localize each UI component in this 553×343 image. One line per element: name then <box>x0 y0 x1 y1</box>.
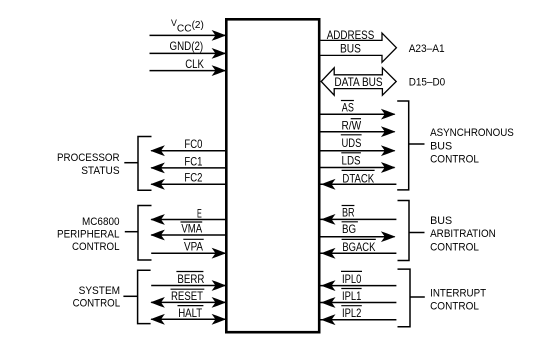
svg-text:FC1: FC1 <box>184 154 202 168</box>
wire DTACK <box>320 183 396 185</box>
arrow into block GND <box>212 49 225 59</box>
svg-text:FC2: FC2 <box>184 171 202 185</box>
svg-text:RESET: RESET <box>171 289 203 303</box>
svg-text:MC6800: MC6800 <box>82 216 120 228</box>
bracket interrupt control <box>398 269 411 327</box>
svg-text:PERIPHERAL: PERIPHERAL <box>57 229 120 241</box>
arrow out AS <box>382 109 395 119</box>
arrow out R/W <box>382 127 395 137</box>
arrow into block VCC <box>212 31 225 41</box>
wire IPL2 <box>320 319 396 321</box>
arrow out BG <box>382 232 395 242</box>
wire R/W <box>320 131 394 133</box>
svg-text:IPL1: IPL1 <box>342 289 361 303</box>
address bus arrow <box>320 33 396 62</box>
wire VMA <box>151 234 225 236</box>
wire BGACK <box>320 252 396 254</box>
bracket asynchronous bus control <box>397 101 409 190</box>
arrow out FC2 <box>151 180 164 190</box>
svg-text:IPL2: IPL2 <box>342 306 361 320</box>
svg-text:R/W: R/W <box>342 118 362 132</box>
wire HALT <box>151 318 225 320</box>
svg-text:D15–D0: D15–D0 <box>409 77 446 89</box>
bracket processor status <box>138 137 152 191</box>
svg-text:BGACK: BGACK <box>342 240 375 254</box>
svg-text:DTACK: DTACK <box>342 171 374 185</box>
arrow in BGACK <box>322 249 335 259</box>
svg-text:CONTROL: CONTROL <box>73 297 121 309</box>
wire BR <box>320 218 396 220</box>
processor block U1 MC68000 <box>226 19 319 332</box>
bracket bus arbitration control <box>398 201 410 261</box>
arrow out VMA <box>151 230 164 240</box>
svg-text:GND(2): GND(2) <box>170 39 204 53</box>
arrow in IPL0 <box>322 281 335 291</box>
svg-text:BG: BG <box>342 222 356 236</box>
arrow out RESET <box>151 298 164 308</box>
arrow in IPL2 <box>322 315 335 325</box>
wire E <box>151 219 225 221</box>
arrow in RESET <box>212 298 225 308</box>
svg-text:STATUS: STATUS <box>81 165 119 177</box>
svg-text:UDS: UDS <box>342 136 362 150</box>
svg-text:AS: AS <box>342 101 354 115</box>
svg-text:BUS: BUS <box>430 141 452 153</box>
data bus arrow <box>321 68 396 95</box>
arrow out LDS <box>382 163 395 173</box>
svg-text:CONTROL: CONTROL <box>430 241 479 253</box>
wire IPL0 <box>320 285 396 287</box>
wire VCC <box>150 34 226 36</box>
wire IPL1 <box>320 302 396 304</box>
bracket system control <box>138 270 151 323</box>
arrow in IPL1 <box>322 298 335 308</box>
wire AS <box>320 113 394 115</box>
svg-text:VMA: VMA <box>181 221 202 235</box>
wire UDS <box>320 150 394 152</box>
wire BG <box>320 236 394 238</box>
arrow in VPA <box>212 248 225 258</box>
arrow in BERR <box>212 281 225 291</box>
arrow in DTACK <box>322 180 335 190</box>
svg-text:CLK: CLK <box>185 57 204 71</box>
svg-text:A23–A1: A23–A1 <box>409 43 445 55</box>
svg-text:PROCESSOR: PROCESSOR <box>57 152 120 164</box>
arrow in HALT <box>212 315 225 325</box>
svg-text:ADDRESS: ADDRESS <box>327 28 375 42</box>
wire GND <box>150 52 226 54</box>
arrow out E <box>151 215 164 225</box>
svg-text:SYSTEM: SYSTEM <box>79 285 121 297</box>
wire FC0 <box>151 150 225 152</box>
svg-text:BUS: BUS <box>430 215 452 227</box>
svg-text:BR: BR <box>342 206 355 220</box>
arrow into block CLK <box>212 66 225 76</box>
bracket MC6800 peripheral control <box>138 206 152 261</box>
svg-text:E: E <box>197 206 202 220</box>
arrow out FC1 <box>151 163 164 173</box>
arrow out UDS <box>382 146 395 156</box>
svg-text:HALT: HALT <box>178 306 202 320</box>
svg-text:ASYNCHRONOUS: ASYNCHRONOUS <box>430 127 514 139</box>
svg-text:LDS: LDS <box>342 154 361 168</box>
svg-text:INTERRUPT: INTERRUPT <box>430 287 486 299</box>
wire CLK <box>150 70 226 72</box>
svg-text:CONTROL: CONTROL <box>430 154 479 166</box>
arrow out FC0 <box>151 146 164 156</box>
wire LDS <box>320 167 394 169</box>
svg-text:BERR: BERR <box>177 272 204 286</box>
svg-text:CONTROL: CONTROL <box>72 241 120 253</box>
svg-text:VCC(2): VCC(2) <box>171 18 204 35</box>
svg-text:DATA BUS: DATA BUS <box>334 75 382 89</box>
svg-text:BUS: BUS <box>340 42 361 56</box>
arrow in BR <box>322 215 335 225</box>
wire VPA <box>151 252 225 254</box>
wire FC2 <box>151 183 225 185</box>
svg-text:VPA: VPA <box>184 240 203 254</box>
svg-text:CONTROL: CONTROL <box>430 300 479 312</box>
arrow out HALT <box>151 315 164 325</box>
svg-text:ARBITRATION: ARBITRATION <box>430 228 496 240</box>
wire FC1 <box>151 167 225 169</box>
svg-text:FC0: FC0 <box>184 137 202 151</box>
wire BERR <box>151 285 225 287</box>
wire RESET <box>151 301 225 303</box>
svg-text:IPL0: IPL0 <box>342 272 362 286</box>
